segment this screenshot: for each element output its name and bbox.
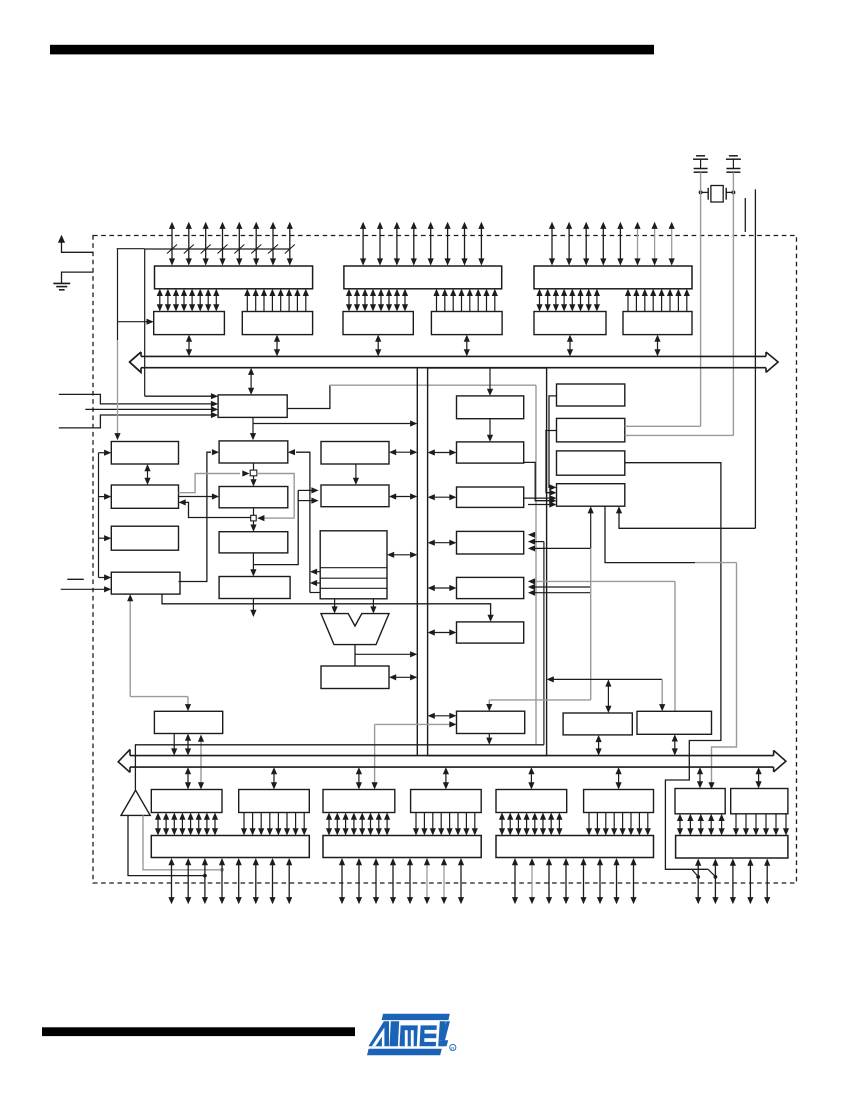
- external interrupt stub 2: [85, 408, 211, 410]
- box M4: [457, 531, 524, 554]
- port driver block G2: [344, 266, 502, 289]
- gray drop into U2: [661, 679, 663, 705]
- bottom port group 3: [496, 790, 567, 813]
- Y register line: [317, 582, 320, 584]
- box P1 (program counter): [111, 442, 178, 465]
- box M (timing): [557, 451, 625, 475]
- bottom port group 2: [323, 790, 395, 813]
- box Q1 (instruction register): [219, 441, 288, 463]
- G wire into N: [524, 497, 551, 499]
- data register / direction register PORT group3: [534, 312, 606, 335]
- timing wire right and down: [625, 463, 721, 870]
- control line to right channel: [253, 423, 411, 425]
- box P4 (MCU control): [111, 572, 180, 594]
- ATMEL logo: [367, 1014, 456, 1055]
- N to M4 wire: [590, 512, 592, 548]
- S to bus2 arrows: [173, 734, 175, 750]
- bottom port group 1: [151, 790, 222, 813]
- data register / direction register PORT group2: [343, 312, 413, 335]
- U1 up double arrow: [607, 685, 609, 707]
- GND pin symbol: [62, 272, 94, 283]
- wire XTAL1 down into chip (gray): [700, 172, 702, 426]
- interrupt control box: [218, 395, 287, 418]
- R1 to channel double arrow: [395, 451, 411, 453]
- data bus (lower): [130, 755, 774, 757]
- gray XTAL wires into oscillator box: [625, 425, 701, 427]
- external interrupt stub 1: [59, 394, 211, 404]
- bottom rule bar: [42, 1027, 355, 1036]
- R3 to ALU arrows: [334, 599, 336, 608]
- ALU output to channel and status reg: [354, 645, 356, 666]
- Q4 control lines stub arrow: [252, 599, 254, 612]
- P1-P2 double arrow: [147, 470, 149, 479]
- box R2: [321, 485, 389, 507]
- diagonal taps onto JTAG pins: [692, 870, 698, 877]
- control box wire right then gray down: [287, 385, 330, 408]
- comparator input AIN1 (gray): [143, 815, 222, 869]
- R1-R2 arrow: [355, 464, 357, 479]
- wire port-reg feed / down into P1: [117, 248, 145, 250]
- RESET wire from top: [754, 189, 756, 528]
- gray vertical to M7: [590, 548, 592, 700]
- box R3 general purpose registers: [320, 531, 387, 599]
- RESET wire into N: [619, 512, 755, 528]
- gray wire P4 down to box S: [129, 600, 131, 697]
- MCU line across into EEPROM box: [162, 594, 491, 616]
- box Q3: [219, 532, 288, 553]
- comparator input AIN0: [128, 815, 205, 875]
- bus to M1 arrow: [489, 368, 491, 390]
- VCC pin symbol: [62, 242, 94, 253]
- status register box: [321, 666, 389, 689]
- data register / direction register PORT group1: [154, 312, 225, 335]
- register-to-bus arrows (top): [188, 341, 190, 351]
- analog comparator triangle: [121, 790, 150, 815]
- line into container from U-row: [552, 678, 662, 680]
- extra wire into N: [528, 504, 551, 506]
- box Q4: [219, 577, 290, 599]
- wire XTAL2 down into chip (gray): [732, 172, 734, 435]
- left feed vertical with arrows into P1..P4: [98, 453, 100, 578]
- pin stub: [744, 198, 746, 232]
- box U1 (timer): [563, 713, 632, 735]
- gray S-port connector: [200, 740, 202, 784]
- box M3: [457, 487, 524, 507]
- U1 to bus2: [598, 741, 600, 750]
- box R1: [321, 442, 389, 465]
- status register to channel: [395, 676, 411, 678]
- gray loop latch S1 to latch S2: [257, 474, 294, 519]
- X register line: [317, 571, 320, 573]
- bus gather line with slashes (G1): [145, 248, 290, 250]
- port driver block G3: [534, 266, 692, 289]
- control box to bus arrow: [250, 374, 252, 389]
- capacitor C1 with ground (XTAL1): [696, 155, 705, 157]
- comparator output wire: [135, 745, 544, 790]
- bottom port group 4 (JTAG): [675, 789, 725, 814]
- memory container rectangle: [428, 368, 547, 756]
- box P3: [111, 526, 178, 550]
- top rule bar: [50, 45, 654, 55]
- box S (interrupt unit): [154, 711, 222, 733]
- R2 to channel double arrow: [395, 496, 411, 498]
- chip dashed border: [93, 236, 797, 884]
- wire from gather line into control box: [145, 395, 211, 397]
- bus2 right open arrowhead: [774, 750, 786, 772]
- CPU bus channel vertical: [416, 368, 418, 756]
- M1 to M2 arrow: [489, 419, 491, 436]
- R3 to channel double arrow: [393, 554, 411, 556]
- K wire into N: [549, 396, 557, 488]
- latch square S2: [253, 508, 255, 516]
- box M1 (program flash): [457, 396, 524, 419]
- control box to instruction reg arrow: [252, 417, 254, 434]
- box P2 (stack pointer): [111, 485, 178, 508]
- box M7 (SPI): [457, 711, 525, 733]
- Q3 to Q4 arrow: [252, 553, 254, 571]
- gray clock line to M5 and watchdog: [533, 580, 675, 582]
- box N (timer/counters): [557, 484, 625, 507]
- external interrupt stub 3: [59, 415, 211, 428]
- capacitor C2 with ground (XTAL2): [729, 155, 738, 157]
- P2 wire to Q2: [179, 496, 213, 498]
- crystal Y1: [711, 186, 723, 203]
- bus right open arrowhead: [766, 352, 778, 372]
- indirect addressing vertical into Q1: [296, 452, 310, 592]
- box L (oscillator): [557, 418, 625, 442]
- F wire into N: [524, 462, 551, 500]
- external wire into P4: [61, 588, 105, 590]
- RESET overbar mark: [67, 578, 84, 580]
- box M6 (EEPROM): [457, 622, 524, 643]
- box Q2 (instruction decoder): [219, 487, 288, 508]
- box M5: [457, 577, 524, 598]
- box M2 (SRAM): [457, 442, 524, 463]
- M7 down arrow: [488, 734, 490, 740]
- SPI to port wire (gray): [375, 723, 451, 725]
- bus2 left open arrowhead: [118, 749, 130, 772]
- box U2 (watchdog): [637, 711, 712, 734]
- P4 wire to Q1: [179, 452, 212, 581]
- ALU funnel: [321, 614, 389, 645]
- gray wire P2 to latch S1: [179, 474, 241, 493]
- data bus (upper): [141, 355, 766, 357]
- latch square S1: [253, 463, 255, 470]
- N down wire to osc row: [605, 506, 695, 562]
- wire gather-line down to interrupt inputs: [144, 249, 146, 396]
- Q3 branch right up into R2: [253, 490, 298, 564]
- wire latch S2 back to P2: [185, 502, 251, 517]
- U2 to bus2: [674, 740, 676, 749]
- port driver block G1: [155, 266, 313, 289]
- L wire into N: [546, 431, 557, 493]
- bus left open arrowhead: [130, 352, 142, 372]
- box K (osc circuit): [557, 384, 625, 406]
